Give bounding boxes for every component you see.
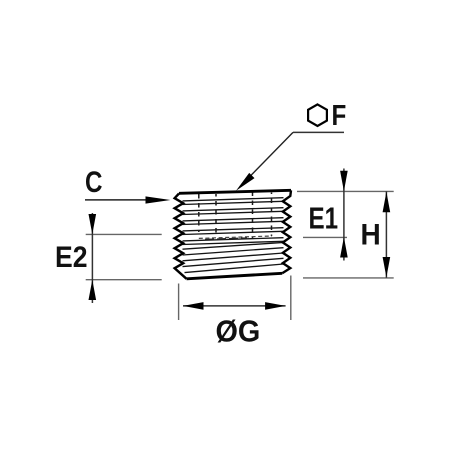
svg-text:C: C [85, 166, 102, 199]
body outline: left thread zigzag [175, 194, 187, 279]
extension line E1 bottom [303, 236, 347, 238]
hidden line: hex socket edge 3 [252, 193, 254, 239]
extension line top (shared E1/H) [297, 190, 394, 192]
dimension H [303, 191, 394, 278]
hidden line: hex socket bottom dark segment [205, 238, 247, 239]
hidden line: hex socket edge 1 [198, 194, 200, 232]
body outline: right thread zigzag [282, 190, 291, 273]
dimension C [85, 166, 171, 204]
hidden line: hex socket edge 4 [271, 193, 273, 237]
extension line H bottom [303, 277, 394, 279]
body outline: top edge [179, 190, 291, 193]
arrowhead H top (points up) [383, 192, 391, 213]
wire: F leader horizontal [293, 131, 344, 133]
hexagon symbol [308, 104, 327, 126]
arrowhead C [146, 196, 171, 203]
extension line E2 top [86, 233, 162, 235]
svg-text:F: F [332, 99, 347, 131]
arrowhead E2 top (points down) [89, 214, 97, 234]
wire: F leader diagonal [248, 132, 293, 178]
dimension E1 [297, 169, 394, 261]
dimension E2 [55, 213, 162, 303]
wire: thread crest lines upper [183, 198, 284, 245]
arrowhead F leader (points down-left) [236, 173, 255, 191]
svg-text:ØG: ØG [216, 314, 261, 348]
svg-text:H: H [361, 219, 381, 252]
wire: H dimension line [385, 191, 387, 277]
arrowhead G right (points right) [265, 302, 286, 310]
wire: C arrow shaft [85, 199, 150, 201]
hidden line: hex socket edge 2 [215, 194, 217, 236]
body outline: bottom edge [187, 273, 283, 279]
arrowhead E1 bottom (points up) [340, 237, 348, 258]
svg-text:E1: E1 [308, 200, 338, 235]
arrowhead E2 bottom (points up) [89, 280, 97, 300]
arrowhead G left (points left) [183, 302, 204, 310]
svg-text:E2: E2 [55, 241, 87, 274]
dimension ØG [179, 276, 291, 349]
wire: E2 dimension line [91, 213, 93, 303]
hidden line: hex socket bottom [199, 236, 272, 238]
arrowhead E1 top (points down) [340, 171, 348, 192]
extension line E2 bottom [86, 279, 162, 281]
arrowhead H bottom (points down) [383, 257, 391, 277]
extension line G left [178, 284, 180, 321]
threaded plug body [175, 190, 291, 278]
extension line G right [290, 276, 292, 321]
wire: thread lines lower (steeper) [183, 242, 284, 272]
wire: G dimension line [183, 305, 286, 307]
wire: E1 dimension line [343, 169, 345, 261]
callout F [236, 99, 346, 191]
